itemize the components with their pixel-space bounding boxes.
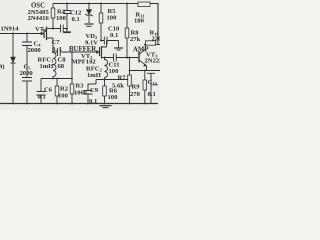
resistor R6 (104, 80, 106, 87)
transistor VT2 JFET (96, 50, 99, 53)
diode VD1 1N914 (12, 34, 14, 58)
resistor R7 (129, 58, 131, 76)
wire source node line (41, 78, 72, 80)
node C7/C12 junction (66, 28, 68, 30)
resistor R11 (138, 2, 150, 7)
wire source bias node (96, 79, 128, 81)
resistor R4 (52, 4, 54, 9)
resistor R8 (126, 4, 128, 29)
resistor R10 (144, 44, 146, 46)
inductor RFC2 (105, 58, 108, 78)
ground bus symbol (100, 105, 112, 107)
label C14 subscript underline (152, 84, 159, 86)
capacitor C6 (37, 79, 46, 104)
wire amp base line (116, 57, 139, 59)
inductor RFC1 (53, 53, 56, 79)
wire ground bus (0, 103, 158, 105)
ground C7 (64, 32, 71, 34)
transistor VT3 BJT (138, 52, 140, 63)
wire emitter node line (130, 70, 161, 72)
wire buffer gate line (60, 51, 99, 53)
resistor R2 (56, 79, 58, 87)
resistor R9 (144, 71, 146, 81)
capacitor C9 (84, 80, 97, 104)
capacitor C10 (100, 40, 102, 42)
ground C12 (63, 31, 71, 33)
capacitor C8 (53, 48, 60, 56)
node drain R4 junction (52, 28, 54, 30)
capacitor C12 (63, 4, 71, 32)
wire top supply rail (53, 4, 158, 45)
node rail junction dots (66, 3, 128, 5)
ground C10 (114, 47, 123, 49)
capacitor C14 (147, 73, 155, 103)
capacitor C7 (53, 25, 67, 33)
node gate wire dots (12, 33, 14, 35)
capacitor C11 (105, 54, 117, 62)
node source junction (52, 51, 54, 53)
capacitor C4 (22, 34, 32, 78)
wire oscillator gate line (0, 33, 44, 35)
transistor VT1 JFET (41, 32, 44, 35)
ground VD2 (85, 23, 94, 25)
resistor R3 (71, 52, 73, 84)
capacitor C5 (22, 78, 32, 104)
zener diode VD2 (88, 4, 90, 10)
resistor R5 (100, 4, 102, 14)
